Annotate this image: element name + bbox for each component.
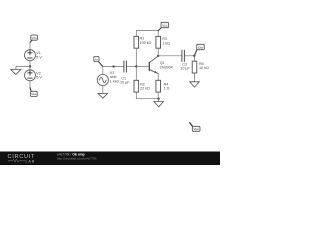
svg-text:V2: V2 [36,71,41,75]
wire C3 to out node [185,55,195,57]
svg-text:100 kΩ: 100 kΩ [140,41,152,45]
svg-text:5 V: 5 V [36,76,42,80]
svg-text:5 V: 5 V [36,56,42,60]
wire C1 to base node [127,65,137,67]
wire R2 bottom to ground junction [136,92,158,99]
flag Vcc (left) [30,35,38,42]
node out [193,55,195,57]
svg-text:10 µF: 10 µF [180,67,190,71]
node base [135,65,137,67]
ground (left) [11,70,21,75]
svg-text:10 kΩ: 10 kΩ [199,66,209,70]
svg-text:In: In [95,57,98,61]
wire R3 bottom to collector node [157,48,159,56]
svg-text:10 µF: 10 µF [120,81,130,85]
ground (bottom middle) [154,102,164,107]
svg-text:V1: V1 [36,51,41,55]
top wire R1 to R3 [136,31,158,37]
node between V1/V2 [29,65,31,67]
svg-text:R1: R1 [140,37,145,41]
wire R5 bottom to ground [194,73,196,82]
flag Vee (floating, bottom right) [190,123,200,132]
capacitor C3 [180,50,190,70]
node on input wire [112,65,114,67]
wire R4 bottom [157,92,159,99]
svg-text:1 kΩ: 1 kΩ [162,41,170,45]
footer text [57,153,97,161]
svg-text:Vcc: Vcc [32,36,38,40]
svg-text:sine: sine [110,75,117,79]
wire to ground [158,99,160,102]
wire base to Q1 [136,65,149,67]
wire V2 to Vee [29,81,31,88]
ground (below R5) [190,82,200,87]
svg-text:Vee: Vee [194,127,200,131]
capacitor C1 [120,61,130,85]
svg-text:http://circuitlab.com/ce4c77i5: http://circuitlab.com/ce4c77i5t [57,157,97,161]
ground (below V3) [98,93,108,98]
wire node to ground [16,66,30,69]
resistor R5 [192,61,209,73]
voltage source V1 [25,50,43,61]
svg-text:R2: R2 [140,82,145,86]
svg-text:Vee: Vee [31,92,37,96]
node bottom ground junction [157,98,159,100]
svg-text:V3: V3 [110,71,115,75]
voltage source V2 [25,70,43,81]
svg-text:2N3904: 2N3904 [160,65,173,69]
wire out node to R5 [194,56,196,61]
svg-text:LAB: LAB [26,159,36,163]
svg-text:R5: R5 [199,62,204,66]
svg-text:Out: Out [198,45,203,49]
wire V1 to V2 [29,61,31,70]
flag Vcc (top right) [158,22,168,30]
resistor R1 [134,36,152,48]
wire V3 bottom lead [102,86,104,94]
svg-text:22 kΩ: 22 kΩ [140,87,150,91]
resistor R3 [156,36,170,48]
svg-text:R4: R4 [164,82,169,86]
svg-text:1 kHz: 1 kHz [110,80,120,84]
node collector [157,55,159,57]
flag Out [194,44,204,55]
wire V3 top lead [102,66,104,74]
source V3 (sine) [97,71,119,86]
transistor Q1 [149,56,172,80]
svg-text:1 Ω: 1 Ω [164,87,170,91]
svg-text:C1: C1 [121,76,126,80]
wire Vcc to V1 [29,42,31,50]
CircuitLab logo [8,154,36,164]
wire R1 bottom to R2 top (base column) [135,48,137,80]
svg-text:R3: R3 [162,37,167,41]
svg-text:Q1: Q1 [160,61,165,65]
flag Vee [30,88,37,97]
svg-text:C3: C3 [182,62,187,66]
flag In [94,56,103,66]
wire collector to C3 [158,55,182,57]
resistor R4 [156,80,170,92]
svg-text:Vcc: Vcc [162,23,168,27]
wire In node to C1 [103,65,124,67]
resistor R2 [134,80,150,92]
footer bar [0,152,220,166]
